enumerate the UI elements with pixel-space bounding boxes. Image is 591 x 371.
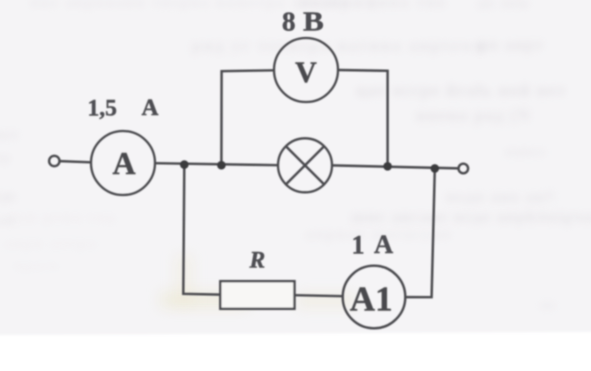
- svg-text:V: V: [295, 56, 317, 89]
- svg-text:A: A: [113, 145, 136, 181]
- svg-text:1,5: 1,5: [88, 96, 117, 122]
- svg-text:В: В: [303, 7, 324, 37]
- svg-text:A: A: [142, 95, 159, 121]
- svg-text:A: A: [374, 229, 393, 259]
- svg-text:A1: A1: [350, 280, 393, 319]
- svg-text:8: 8: [282, 7, 296, 37]
- svg-text:R: R: [249, 248, 266, 274]
- svg-text:1: 1: [352, 230, 365, 259]
